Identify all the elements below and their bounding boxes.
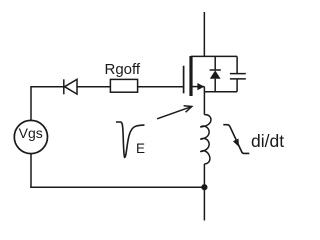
- wire: resistor to gate: [138, 86, 184, 88]
- wire: bottom horizontal return: [30, 186, 204, 188]
- wire: drain vertical to top: [203, 12, 205, 56]
- body diode triangle: [210, 70, 221, 78]
- MOSFET Q1 channel bar: [189, 56, 192, 96]
- body diode top lead: [214, 56, 216, 70]
- svg-text:Rgoff: Rgoff: [105, 61, 141, 78]
- source Vgs circle: [14, 120, 47, 153]
- body diode bottom lead: [214, 79, 216, 92]
- MOSFET Q1 source lead: [193, 86, 205, 88]
- junction dot: [201, 184, 207, 190]
- capacitor top plate: [230, 73, 246, 75]
- capacitor top lead: [236, 56, 238, 73]
- wire: diode to resistor: [77, 86, 110, 88]
- diode D1 triangle: [65, 79, 77, 94]
- MOSFET Q1 source arrow: [197, 83, 204, 90]
- annotation arrow (E to MOSFET): [157, 107, 191, 119]
- annotation di/dt curve: [223, 125, 249, 154]
- annotation di/dt arrowhead: [233, 139, 239, 147]
- svg-text:E: E: [136, 141, 145, 156]
- wire: source vertical (to inductor): [203, 87, 205, 115]
- body diode cathode bar: [210, 69, 221, 71]
- wire: gate loop horizontal (corner to diode cathode): [30, 86, 64, 88]
- svg-text:Vgs: Vgs: [19, 125, 43, 141]
- resistor Rgoff body: [110, 79, 137, 92]
- wire: bottom rail (source to capacitor): [204, 91, 237, 93]
- capacitor bottom lead: [236, 79, 238, 92]
- wire: inductor to junction: [203, 164, 205, 187]
- inductor coil: [200, 115, 211, 164]
- wire: drain rail (channel top to capacitor): [191, 55, 237, 57]
- capacitor bottom plate: [230, 78, 246, 80]
- wire: left vertical top (Vgs to corner): [30, 87, 32, 120]
- MOSFET Q1 gate bar: [183, 66, 185, 94]
- diode D1 cathode bar: [63, 79, 65, 94]
- wire: bottom tail below junction: [203, 187, 205, 220]
- svg-text:di/dt: di/dt: [251, 131, 284, 151]
- wire: left vertical bottom: [30, 154, 32, 188]
- annotation E waveform curve: [116, 122, 145, 157]
